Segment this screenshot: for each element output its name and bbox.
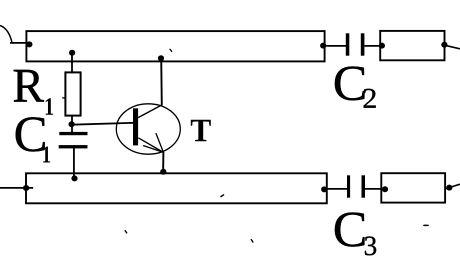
- node: bottom stripline right end: [321, 186, 327, 192]
- wire collector of T to top stripline: [160, 58, 163, 105]
- wire node A to C1 top plate: [71, 124, 73, 134]
- node: top stripline input junction: [26, 41, 32, 47]
- wire bottom stripline to C3: [327, 188, 347, 190]
- transistor T: [116, 104, 180, 154]
- node: top right stripline right end: [441, 42, 447, 48]
- capacitor C1: [59, 132, 88, 149]
- node: bottom stripline input junction: [23, 185, 29, 191]
- wire emitter of T to bottom stripline: [162, 152, 164, 173]
- stripline W1 top: [26, 31, 324, 61]
- stripline W3 top right: [380, 31, 444, 60]
- label C1 letter C: [16, 117, 45, 151]
- node: bottom right stripline output junction: [446, 185, 452, 191]
- stray mark inside bottom stripline: [221, 195, 224, 197]
- input lead arc top-left: [0, 26, 12, 43]
- label C1 subscript 1: [43, 147, 50, 163]
- label C2 subscript 2: [364, 89, 376, 108]
- capacitor C2: [346, 33, 365, 55]
- wire node A to base of T: [72, 123, 134, 125]
- node: top stripline right end: [320, 43, 326, 49]
- wire input to top stripline: [10, 42, 27, 44]
- wire C3 to bottom right stripline: [365, 188, 382, 190]
- wire R1 to node A: [71, 115, 73, 124]
- wire R1 to top stripline: [71, 53, 73, 73]
- label C2 letter C: [335, 67, 365, 101]
- stripline W4 bottom right: [381, 173, 445, 202]
- label C3 subscript 3: [365, 236, 376, 255]
- label R1 subscript 1: [46, 98, 53, 115]
- label R1 letter R: [14, 70, 44, 102]
- node: top stripline R1 junction: [69, 50, 75, 56]
- stripline W2 bottom: [26, 173, 327, 203]
- node: top right stripline left end: [379, 43, 385, 49]
- wire top right output lead: [445, 45, 460, 49]
- stray mark below bottom stripline middle: [251, 240, 253, 242]
- stray nub on R1 left edge: [62, 97, 65, 99]
- wire C2 to top right stripline: [364, 45, 381, 47]
- wire top stripline to C2: [325, 45, 346, 47]
- wire C1 to bottom stripline: [73, 148, 75, 178]
- stray mark below bottom stripline left: [125, 231, 127, 233]
- stray mark near collector junction: [170, 49, 172, 51]
- wire input to bottom stripline: [0, 187, 33, 189]
- node A: R1 / C1 / base junction: [69, 121, 75, 127]
- label C3 letter C: [335, 212, 365, 246]
- node: top stripline collector junction: [158, 55, 164, 61]
- node: bottom stripline C1 junction: [71, 175, 77, 181]
- node: bottom right stripline left end: [382, 186, 388, 192]
- capacitor C3: [347, 175, 365, 197]
- label T: [191, 120, 211, 141]
- stray dash right of C3: [424, 224, 428, 226]
- node: bottom stripline emitter junction: [160, 169, 166, 175]
- wire bottom right output lead: [445, 184, 460, 189]
- resistor R1: [65, 72, 80, 115]
